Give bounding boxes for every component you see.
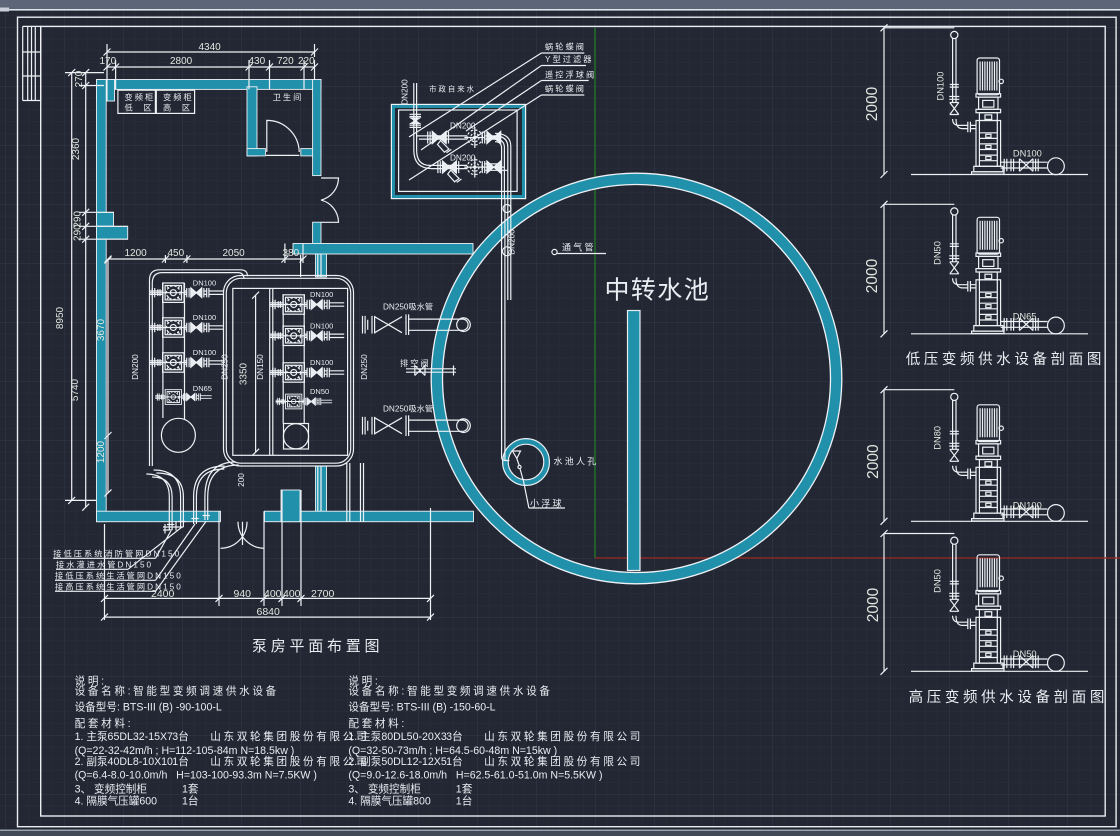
svg-text:DN100: DN100 <box>310 321 333 330</box>
svg-text:1台: 1台 <box>446 755 463 768</box>
svg-text:6840: 6840 <box>257 606 281 618</box>
svg-text:720: 720 <box>277 56 294 67</box>
svg-text:200: 200 <box>237 473 246 487</box>
svg-text:设备名称:智能型变频调速供水设备: 设备名称:智能型变频调速供水设备 <box>348 685 552 698</box>
svg-text:1. 主泵80DL50-20X3: 1. 主泵80DL50-20X3 <box>348 731 446 743</box>
svg-text:DN200: DN200 <box>508 229 517 255</box>
svg-text:泵房平面布置图: 泵房平面布置图 <box>252 638 383 655</box>
svg-text:DN200: DN200 <box>131 354 140 380</box>
svg-text:接高压系统生活管网DN150: 接高压系统生活管网DN150 <box>55 582 183 592</box>
svg-text:2. 副泵50DL12-12X5: 2. 副泵50DL12-12X5 <box>348 756 446 768</box>
svg-text:1台: 1台 <box>182 795 199 808</box>
svg-text:变频柜: 变频柜 <box>125 92 156 102</box>
svg-text:2360: 2360 <box>71 137 82 160</box>
svg-text:4340: 4340 <box>199 42 222 53</box>
svg-text:蜗轮蝶阀: 蜗轮蝶阀 <box>545 42 586 52</box>
svg-text:940: 940 <box>234 588 252 600</box>
svg-text:蜗轮蝶阀: 蜗轮蝶阀 <box>545 84 586 94</box>
svg-text:(Q=6.4-8.0-10.0m/h H=103-100: (Q=6.4-8.0-10.0m/h H=103-100-93.3m N=7.5… <box>75 770 317 782</box>
svg-text:4. 隔膜气压罐800: 4. 隔膜气压罐800 <box>348 795 431 808</box>
svg-text:450: 450 <box>168 248 185 259</box>
svg-text:设备名称:智能型变频调速供水设备: 设备名称:智能型变频调速供水设备 <box>75 685 279 698</box>
svg-text:DN200: DN200 <box>450 122 476 131</box>
svg-text:3、 变频控制柜: 3、 变频控制柜 <box>75 783 148 796</box>
svg-text:1200: 1200 <box>96 440 107 463</box>
svg-text:中转水池: 中转水池 <box>605 277 711 305</box>
svg-text:DN100: DN100 <box>1013 149 1042 159</box>
svg-text:3350: 3350 <box>239 362 250 385</box>
svg-text:山东双轮集团股份有限公司: 山东双轮集团股份有限公司 <box>210 755 369 768</box>
svg-text:变频柜: 变频柜 <box>163 92 194 102</box>
svg-text:1台: 1台 <box>456 795 473 808</box>
svg-text:DN100: DN100 <box>310 358 333 367</box>
svg-text:1台: 1台 <box>172 755 189 768</box>
svg-text:DN100: DN100 <box>193 313 216 322</box>
svg-text:2000: 2000 <box>865 587 882 622</box>
svg-text:5740: 5740 <box>70 378 81 401</box>
svg-text:2700: 2700 <box>311 588 335 600</box>
svg-text:3台: 3台 <box>446 730 463 743</box>
svg-text:DN100: DN100 <box>310 290 333 299</box>
svg-text:低压变频供水设备剖面图: 低压变频供水设备剖面图 <box>906 351 1105 368</box>
svg-text:DN150: DN150 <box>256 354 265 380</box>
svg-text:DN250吸水管: DN250吸水管 <box>383 404 433 414</box>
svg-text:290: 290 <box>73 224 84 241</box>
svg-text:DN200: DN200 <box>401 79 410 105</box>
svg-text:山东双轮集团股份有限公司: 山东双轮集团股份有限公司 <box>484 755 643 768</box>
svg-text:1. 主泵65DL32-15X7: 1. 主泵65DL32-15X7 <box>75 731 173 743</box>
svg-text:400: 400 <box>283 588 301 600</box>
svg-text:270: 270 <box>74 70 85 87</box>
svg-text:DN100: DN100 <box>1013 501 1042 511</box>
svg-text:1套: 1套 <box>182 783 199 796</box>
svg-text:2000: 2000 <box>864 258 881 293</box>
svg-text:通气管: 通气管 <box>562 242 596 253</box>
svg-text:3、 变频控制柜: 3、 变频控制柜 <box>348 783 421 796</box>
svg-text:4. 隔膜气压罐600: 4. 隔膜气压罐600 <box>75 795 158 808</box>
svg-text:380: 380 <box>283 248 300 259</box>
svg-text:设备型号: BTS-III (B) -150-60-L: 设备型号: BTS-III (B) -150-60-L <box>348 701 495 714</box>
svg-text:卫生间: 卫生间 <box>273 92 304 102</box>
svg-text:DN200: DN200 <box>450 154 476 163</box>
svg-text:1200: 1200 <box>125 248 148 259</box>
svg-text:遥控浮球阀: 遥控浮球阀 <box>545 70 596 80</box>
svg-text:高 区: 高 区 <box>163 102 192 112</box>
svg-text:170: 170 <box>100 56 117 67</box>
svg-text:DN50: DN50 <box>310 387 329 396</box>
svg-text:DN250: DN250 <box>221 354 230 380</box>
svg-text:市政自来水: 市政自来水 <box>429 84 476 94</box>
svg-text:小浮球: 小浮球 <box>530 498 564 509</box>
svg-text:DN100: DN100 <box>193 348 216 357</box>
svg-text:低 区: 低 区 <box>125 102 154 112</box>
svg-text:设备型号: BTS-III (B) -90-100-L: 设备型号: BTS-III (B) -90-100-L <box>75 701 222 714</box>
svg-text:山东双轮集团股份有限公司: 山东双轮集团股份有限公司 <box>210 730 369 743</box>
svg-text:DN250吸水管: DN250吸水管 <box>383 302 433 312</box>
svg-text:3670: 3670 <box>96 318 107 341</box>
svg-text:DN50: DN50 <box>932 569 942 593</box>
svg-text:2. 副泵40DL8-10X10: 2. 副泵40DL8-10X10 <box>75 756 173 768</box>
svg-text:水池人孔: 水池人孔 <box>554 456 599 467</box>
svg-text:220: 220 <box>298 56 315 67</box>
svg-text:配套材料:: 配套材料: <box>75 717 134 730</box>
svg-text:430: 430 <box>249 56 266 67</box>
svg-text:DN100: DN100 <box>193 278 216 287</box>
svg-text:山东双轮集团股份有限公司: 山东双轮集团股份有限公司 <box>484 730 643 743</box>
svg-text:DN250: DN250 <box>360 354 369 380</box>
svg-text:2000: 2000 <box>865 444 882 479</box>
svg-text:排空阀: 排空阀 <box>400 358 431 368</box>
svg-text:接低压系统消防管网DN150: 接低压系统消防管网DN150 <box>53 549 181 559</box>
svg-text:2000: 2000 <box>864 86 881 121</box>
svg-text:2800: 2800 <box>170 56 193 67</box>
svg-text:400: 400 <box>264 588 282 600</box>
svg-text:DN100: DN100 <box>936 72 946 101</box>
svg-text:3台: 3台 <box>172 730 189 743</box>
svg-text:2050: 2050 <box>223 248 246 259</box>
svg-text:DN80: DN80 <box>932 426 942 450</box>
svg-text:配套材料:: 配套材料: <box>348 717 407 730</box>
svg-text:DN50: DN50 <box>1013 649 1037 659</box>
svg-text:DN65: DN65 <box>1013 312 1037 322</box>
svg-text:高压变频供水设备剖面图: 高压变频供水设备剖面图 <box>909 689 1108 706</box>
svg-text:(Q=9.0-12.6-18.0m/h H=62.5-6: (Q=9.0-12.6-18.0m/h H=62.5-61.0-51.0m N=… <box>348 770 602 782</box>
svg-text:Y型过滤器: Y型过滤器 <box>545 54 593 64</box>
svg-text:DN65: DN65 <box>193 384 212 393</box>
svg-text:1套: 1套 <box>456 783 473 796</box>
svg-text:DN50: DN50 <box>932 241 942 265</box>
svg-text:8950: 8950 <box>55 306 66 329</box>
